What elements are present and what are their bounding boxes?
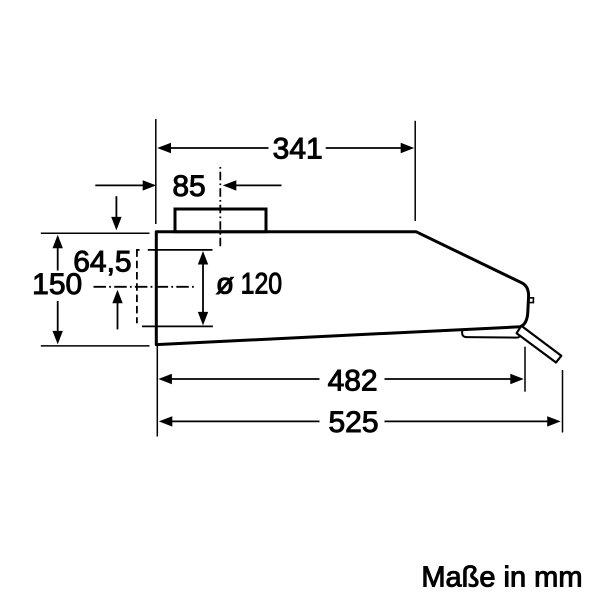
svg-text:525: 525 [328,406,378,439]
svg-text:85: 85 [172,170,205,203]
svg-text:482: 482 [328,365,378,398]
svg-text:ø120: ø120 [216,267,282,300]
svg-text:Maße in mm: Maße in mm [421,562,582,594]
svg-text:150: 150 [32,268,82,301]
svg-text:341: 341 [273,132,323,165]
